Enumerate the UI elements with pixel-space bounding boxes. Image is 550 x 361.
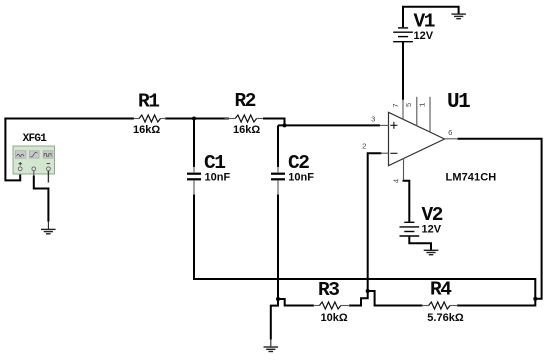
wire R4 left lead to node C bbox=[367, 291, 423, 306]
wire op-amp output pin 6 to right edge and down bbox=[458, 139, 542, 299]
wire node B to op-amp pin 3 bbox=[278, 124, 380, 126]
resistor R2 bbox=[225, 90, 263, 136]
wire V2 bottom to ground bbox=[409, 237, 431, 251]
wire main horizontal to R1 bbox=[4, 118, 134, 120]
svg-text:R2: R2 bbox=[235, 90, 256, 112]
wire C2 top drop bbox=[277, 125, 279, 167]
svg-text:7: 7 bbox=[393, 103, 401, 108]
output node junction dot bbox=[533, 297, 537, 301]
wire R2 to node B step down bbox=[263, 119, 285, 126]
wire XFG1 common terminal to ground bbox=[34, 171, 49, 222]
op-amp pin 7 lead bbox=[393, 100, 403, 120]
wire C1 top drop from node A bbox=[193, 119, 195, 168]
node B junction dot bbox=[283, 123, 287, 127]
ground top right (V1) bbox=[451, 14, 466, 19]
svg-text:5: 5 bbox=[406, 102, 414, 107]
wire R3 left lead to node D bbox=[277, 299, 314, 306]
svg-text:12V: 12V bbox=[414, 30, 434, 42]
op-amp pin 6 lead bbox=[445, 130, 459, 139]
resistor R4 bbox=[422, 279, 464, 325]
ground under R3 bbox=[264, 339, 279, 352]
svg-text:R4: R4 bbox=[430, 279, 452, 301]
svg-text:16kΩ: 16kΩ bbox=[233, 124, 260, 136]
op-amp pin 4 lead bbox=[394, 158, 404, 183]
svg-text:6: 6 bbox=[448, 130, 453, 138]
wire node C to R3 right lead bbox=[349, 290, 368, 306]
wire R1 to node A bbox=[165, 118, 195, 120]
svg-text:XFG1: XFG1 bbox=[23, 133, 48, 145]
wire input from XFG1 plus terminal up-left to main line bbox=[5, 119, 20, 181]
ground below XFG1 bbox=[41, 222, 56, 234]
wire C1 bottom to output node (long bottom feedback) bbox=[194, 194, 535, 298]
battery V2 bbox=[400, 181, 443, 236]
svg-text:3: 3 bbox=[371, 116, 376, 124]
svg-text:R1: R1 bbox=[138, 91, 159, 113]
ground below V2 bbox=[424, 250, 439, 254]
capacitor C2 bbox=[271, 152, 314, 195]
svg-text:2: 2 bbox=[362, 143, 367, 151]
resistor R1 bbox=[133, 91, 166, 136]
op-amp pin 3 lead bbox=[371, 116, 389, 125]
svg-text:12V: 12V bbox=[422, 223, 442, 235]
svg-text:4: 4 bbox=[394, 178, 402, 183]
wire feedback from op-amp pin 2 down to node C bbox=[368, 153, 382, 292]
function generator XFG1 bbox=[13, 133, 55, 174]
svg-text:R3: R3 bbox=[318, 279, 339, 301]
op-amp pin 1 lead bbox=[420, 97, 430, 133]
wire C2 bottom down to node D bbox=[277, 194, 279, 300]
svg-text:10nF: 10nF bbox=[205, 172, 231, 184]
svg-text:5.76kΩ: 5.76kΩ bbox=[427, 312, 464, 324]
wire node A to R2 bbox=[194, 118, 229, 120]
svg-text:1: 1 bbox=[420, 102, 428, 107]
battery V1 bbox=[393, 7, 458, 42]
op-amp pin 2 lead bbox=[362, 143, 389, 153]
op-amp U1 bbox=[389, 91, 497, 183]
wire node D to ground jog bbox=[271, 298, 278, 340]
node A junction dot bbox=[192, 117, 196, 121]
wire output node down to R4 right lead bbox=[457, 298, 535, 306]
capacitor C1 bbox=[187, 152, 230, 195]
node D junction dot bbox=[276, 297, 280, 301]
svg-text:10kΩ: 10kΩ bbox=[321, 312, 348, 324]
resistor R3 bbox=[313, 279, 350, 324]
svg-text:10nF: 10nF bbox=[288, 172, 314, 184]
wire V1 bottom to op-amp pin 7 bbox=[402, 42, 404, 100]
node C junction dot bbox=[366, 289, 370, 293]
XFG1 negative terminal stub bbox=[47, 171, 49, 183]
svg-text:U1: U1 bbox=[447, 91, 470, 114]
svg-text:LM741CH: LM741CH bbox=[446, 171, 497, 183]
svg-text:16kΩ: 16kΩ bbox=[133, 124, 160, 136]
op-amp pin 5 lead bbox=[406, 97, 417, 126]
